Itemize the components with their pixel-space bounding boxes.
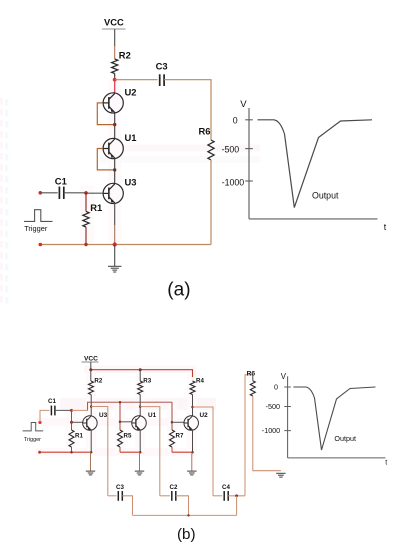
wire U3 collector to C3 drop bbox=[91, 407, 108, 496]
resistor R1 (b) bbox=[69, 430, 74, 447]
svg-text:VCC: VCC bbox=[84, 355, 98, 362]
wire C2 right to bottom bus bbox=[176, 496, 189, 516]
ground U2 stage bbox=[187, 471, 197, 475]
junction emitter rail U2 bbox=[191, 451, 194, 454]
wire input to C1 bbox=[40, 192, 57, 194]
svg-text:R2: R2 bbox=[119, 50, 131, 61]
wire C3 to R6 top bbox=[164, 80, 211, 140]
svg-text:U3: U3 bbox=[125, 177, 137, 188]
transistor U1 bbox=[103, 138, 123, 158]
wire U1 base tap vertical bbox=[119, 402, 121, 430]
svg-text:R1: R1 bbox=[75, 433, 83, 440]
resistor R5 bbox=[118, 430, 123, 447]
capacitor C1 (a) bbox=[58, 187, 60, 199]
pink jpeg halo bands circuit b bbox=[36, 366, 216, 457]
wire C2 left lead bbox=[160, 495, 170, 497]
svg-text:Output: Output bbox=[334, 434, 356, 443]
transistor U2 (b) bbox=[184, 416, 199, 431]
wire C1 to junction (b) bbox=[55, 409, 72, 411]
transistor U3 (b) bbox=[83, 416, 98, 431]
wire red collector segment to U2 bbox=[114, 80, 116, 94]
graph a: tick -1000 bbox=[245, 180, 253, 182]
svg-text:R6: R6 bbox=[199, 126, 211, 137]
resistor R2 (b) bbox=[90, 370, 92, 381]
ground (a) bbox=[108, 266, 122, 272]
junction R1 bottom rail bbox=[70, 451, 73, 454]
wire output riser to R6 (b) bbox=[245, 375, 253, 496]
wire U1 collector to C2 drop bbox=[140, 407, 160, 496]
junction emitter rail U1 bbox=[139, 451, 142, 454]
junction C4 output node bbox=[235, 494, 238, 497]
trigger bus wire (b) bbox=[88, 402, 172, 410]
svg-text:U1: U1 bbox=[148, 412, 157, 419]
trigger return terminal dot bbox=[38, 451, 41, 454]
ground R6 (b) bbox=[276, 473, 286, 477]
VCC rail symbol (b) bbox=[82, 361, 99, 363]
wire to ground U1 stage bbox=[139, 452, 141, 471]
svg-text:R5: R5 bbox=[124, 433, 132, 440]
svg-text:U3: U3 bbox=[99, 412, 108, 419]
wire C4 right to output riser bbox=[228, 495, 245, 497]
junction U2e/U1c bbox=[113, 123, 116, 126]
svg-text:U1: U1 bbox=[125, 132, 137, 143]
emitter rail U3 stage bbox=[72, 451, 92, 453]
node below R2 bbox=[113, 78, 117, 82]
wire U1 base bbox=[120, 421, 132, 423]
wire C1 junction to bus riser bbox=[72, 409, 88, 411]
resistor R2 bbox=[112, 59, 118, 74]
wire R1 to rail bbox=[85, 227, 87, 245]
resistor R6 (b) bbox=[252, 375, 254, 381]
wire U1 collector down bbox=[139, 402, 141, 416]
svg-text:R4: R4 bbox=[196, 377, 204, 384]
junction emitter rail U3 bbox=[90, 451, 93, 454]
junction bottom bus C2 bbox=[187, 514, 189, 516]
wire U1 emitter down bbox=[139, 429, 141, 452]
svg-text:V: V bbox=[240, 99, 247, 110]
junction C1 out (b) bbox=[70, 409, 73, 412]
svg-text:C4: C4 bbox=[222, 484, 230, 491]
svg-text:R7: R7 bbox=[176, 433, 184, 440]
svg-text:t: t bbox=[385, 459, 387, 466]
svg-text:C3: C3 bbox=[116, 484, 124, 491]
trigger pulse symbol (a) bbox=[24, 210, 53, 222]
trigger return rail (b) bbox=[40, 451, 72, 453]
transistor U3 bbox=[103, 183, 123, 203]
resistor R3 bbox=[139, 370, 141, 381]
ground U1 stage bbox=[135, 471, 144, 475]
svg-text:Trigger: Trigger bbox=[24, 437, 41, 443]
graph b: tick -1000 bbox=[284, 430, 291, 432]
transistor U1 (b) bbox=[132, 416, 147, 431]
scan artifact stripes left edge bbox=[1, 98, 9, 304]
svg-text:Output: Output bbox=[312, 190, 339, 200]
svg-text:R2: R2 bbox=[94, 377, 102, 384]
wire C1 to base junction bbox=[64, 192, 86, 194]
svg-text:0: 0 bbox=[233, 116, 238, 126]
graph b: y axis bbox=[287, 376, 289, 458]
graph b: output waveform bbox=[293, 387, 375, 450]
wire U2 base-emitter loop bbox=[97, 103, 114, 125]
rail left terminal dot bbox=[39, 243, 43, 247]
wire VCC stem (b) bbox=[90, 362, 92, 370]
svg-text:-500: -500 bbox=[222, 144, 240, 154]
VCC rail wire (b) bbox=[91, 370, 193, 377]
VCC rail symbol (a) bbox=[102, 28, 126, 30]
wire R6 bottom to ground (b) bbox=[253, 396, 281, 471]
junction U2 base node bbox=[171, 421, 174, 424]
wire U2 emitter down bbox=[192, 429, 194, 452]
wire U2 base bbox=[172, 421, 184, 423]
wire C3 right to bottom bus bbox=[122, 496, 132, 516]
svg-text:C1: C1 bbox=[48, 398, 56, 405]
wire U2 emitter to U1 collector bbox=[114, 113, 116, 139]
wire C3 left lead bbox=[108, 495, 117, 497]
wire to ground U2 stage bbox=[191, 452, 193, 471]
wire to ground U3 stage bbox=[90, 452, 92, 471]
graph a: x axis bbox=[249, 218, 378, 220]
wire R6 to bottom rail bbox=[210, 160, 212, 245]
svg-text:VCC: VCC bbox=[104, 17, 124, 28]
VCC rail junction dots bbox=[89, 368, 92, 371]
wire U3 emitter down bbox=[90, 429, 92, 452]
input terminal dot (b) bbox=[38, 421, 41, 424]
junction U1 base node bbox=[119, 421, 122, 424]
wire U3 emitter down bbox=[114, 203, 116, 225]
wire U2 collector down bbox=[192, 407, 194, 416]
wire input up to C1 (b) bbox=[40, 410, 50, 422]
resistor R7 bbox=[170, 430, 175, 447]
wire VCC stem (a) bbox=[114, 29, 116, 46]
trigger pulse symbol (b) bbox=[23, 423, 44, 431]
rail center junction dot bbox=[113, 242, 117, 246]
resistor R1 (a) bbox=[83, 211, 89, 227]
svg-text:R6: R6 bbox=[247, 371, 256, 378]
svg-text:U2: U2 bbox=[200, 412, 209, 419]
input terminal dot (a) bbox=[39, 191, 43, 195]
graph a: output waveform bbox=[258, 120, 373, 208]
wire node to C3 bbox=[115, 79, 158, 81]
wire U1 emitter to U3 collector bbox=[114, 158, 116, 184]
rail R1 junction dot bbox=[84, 243, 87, 246]
wire U1 base-emitter loop bbox=[97, 149, 114, 170]
ground U3 stage bbox=[86, 471, 95, 475]
svg-text:(b): (b) bbox=[177, 526, 196, 543]
svg-text:(a): (a) bbox=[167, 279, 190, 300]
svg-text:0: 0 bbox=[274, 383, 278, 392]
wire C4 left lead bbox=[213, 495, 222, 497]
emitter rail U1 stage bbox=[120, 451, 140, 453]
junction U1e/U3c bbox=[113, 168, 116, 171]
junction U2 collector / C4 wire bbox=[191, 406, 194, 409]
capacitor C2 bbox=[171, 491, 173, 501]
wire U2 collector to C4 drop bbox=[193, 407, 214, 496]
capacitor C3 bbox=[159, 74, 161, 86]
svg-text:-1000: -1000 bbox=[222, 178, 245, 188]
resistor R4 bbox=[190, 381, 195, 395]
pink jpeg halo bands circuit a bbox=[80, 80, 260, 243]
wire C4 node down to bus bbox=[236, 496, 238, 516]
svg-text:C1: C1 bbox=[55, 176, 67, 187]
junction U3 base node bbox=[70, 421, 73, 424]
graph b: tick 0 bbox=[284, 386, 291, 388]
resistor R6 (a) bbox=[208, 140, 214, 160]
svg-text:C3: C3 bbox=[156, 60, 168, 71]
junction C1/R1/base bbox=[84, 191, 88, 195]
graph a: tick 0 bbox=[245, 119, 253, 121]
svg-text:C2: C2 bbox=[170, 484, 178, 491]
graph a: y axis bbox=[248, 108, 250, 219]
junction U1 collector / C2 wire bbox=[139, 405, 142, 408]
graph a: tick -500 bbox=[245, 148, 253, 150]
svg-text:Trigger: Trigger bbox=[24, 224, 48, 233]
capacitor C1 (b) bbox=[50, 406, 52, 416]
bottom rail (a) bbox=[40, 244, 211, 246]
capacitor C4 bbox=[223, 491, 225, 501]
svg-text:U2: U2 bbox=[125, 87, 137, 98]
svg-text:V: V bbox=[281, 372, 287, 381]
graph b: x axis bbox=[288, 457, 386, 459]
wire junction to R1 bbox=[85, 193, 87, 212]
wire U3 base bbox=[72, 421, 83, 423]
wire junction down to base node bbox=[71, 410, 73, 430]
bottom bus (b) bbox=[133, 514, 237, 516]
wire base junction to U3 base bbox=[86, 192, 103, 194]
junction U3 collector / C3 wire bbox=[90, 405, 93, 408]
emitter rail U2 stage bbox=[172, 451, 193, 453]
junction bus / U1 base tap bbox=[119, 401, 122, 404]
svg-text:R1: R1 bbox=[90, 202, 102, 213]
wire U3 collector down to circle bbox=[90, 402, 92, 416]
wire U2 base tap vertical bbox=[171, 402, 173, 430]
transistor U2 bbox=[103, 93, 123, 113]
svg-text:R3: R3 bbox=[143, 377, 151, 384]
svg-text:-500: -500 bbox=[266, 402, 280, 411]
svg-text:-1000: -1000 bbox=[262, 426, 280, 435]
graph b: tick -500 bbox=[284, 406, 291, 408]
wire rail to ground (a) bbox=[114, 245, 116, 267]
capacitor C3 (b) bbox=[117, 491, 119, 501]
